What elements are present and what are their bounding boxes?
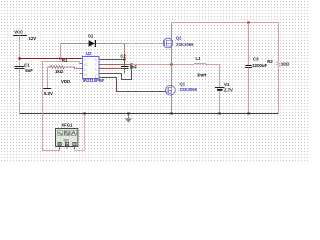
- wire C3 branch lower: [248, 68, 250, 114]
- svg-text:C3: C3: [253, 56, 259, 61]
- wire L1 right to V1: [206, 65, 220, 88]
- junction switch node: [170, 63, 172, 65]
- wire HO left part: [99, 64, 132, 66]
- junction V1 at rail: [218, 112, 220, 114]
- wire VCC vertical upper: [19, 36, 21, 67]
- svg-text:Q1: Q1: [180, 81, 186, 86]
- diode S1: [88, 34, 96, 47]
- wire gate Q2: [124, 43, 163, 45]
- wire VB pin: [99, 59, 125, 61]
- svg-text:5.0V: 5.0V: [44, 91, 53, 96]
- capacitor C2: [121, 64, 138, 69]
- svg-text:2200uF: 2200uF: [252, 63, 267, 68]
- svg-text:2SK3069: 2SK3069: [180, 87, 198, 92]
- svg-text:1kΩ: 1kΩ: [55, 69, 64, 74]
- wire C3 branch upper: [248, 23, 250, 66]
- wire Q2 drain: [171, 23, 173, 39]
- wire SD row to C2: [99, 68, 121, 70]
- svg-text:VCC: VCC: [14, 29, 23, 34]
- wire VDD supply to U2: [20, 58, 83, 60]
- resistor R2: [267, 59, 289, 67]
- junction XFG1 minus at rail: [83, 112, 85, 114]
- wire LO to Q1 gate: [99, 78, 167, 92]
- MOSFET Q2: [163, 36, 194, 48]
- capacitor C1: [15, 62, 34, 73]
- wire R1 to VDD symbol: [47, 67, 49, 89]
- wire C2 bottom stub: [124, 69, 126, 74]
- svg-text:2SK3069: 2SK3069: [176, 42, 194, 47]
- svg-text:U2: U2: [86, 51, 92, 56]
- svg-text:Q2: Q2: [176, 36, 182, 41]
- svg-text:C2: C2: [120, 53, 126, 58]
- wire V1 bottom: [219, 91, 221, 114]
- bottom rail wire: [20, 113, 279, 115]
- wire VS hook: [99, 65, 132, 80]
- wire XFG1 minus to rail: [75, 114, 85, 151]
- VCC power symbol: [13, 29, 36, 41]
- battery V1: [215, 82, 233, 93]
- wire HO to L1: [132, 64, 195, 66]
- svg-text:R2: R2: [267, 59, 273, 64]
- junction C3 at rail: [247, 112, 249, 114]
- junction Q1 at rail: [170, 112, 172, 114]
- resistor R1: [48, 58, 83, 74]
- junction S1 branch: [59, 57, 61, 59]
- svg-text:VDD: VDD: [61, 79, 70, 84]
- wire VCC vertical lower: [19, 69, 21, 114]
- svg-text:2.7V: 2.7V: [224, 88, 233, 93]
- svg-text:3mH: 3mH: [197, 73, 206, 78]
- svg-text:R1: R1: [62, 58, 68, 63]
- wire C2 top stub: [124, 60, 126, 67]
- wire S1 horizontal: [61, 43, 125, 45]
- svg-text:5nF: 5nF: [25, 68, 33, 73]
- svg-text:C1: C1: [24, 62, 30, 67]
- ground symbol: [125, 114, 132, 123]
- svg-text:606: 606: [64, 139, 70, 143]
- junction C3 top: [247, 21, 249, 23]
- svg-text:12V: 12V: [29, 36, 37, 41]
- svg-text:S1: S1: [88, 34, 94, 39]
- wire Q2 source to Q1 drain: [171, 48, 173, 86]
- svg-text:10Ω: 10Ω: [281, 62, 290, 67]
- wire R2 branch lower: [278, 67, 280, 114]
- wire S1 cathode down: [124, 44, 126, 60]
- wire Q1 source to rail: [171, 95, 173, 114]
- svg-text:V1: V1: [224, 82, 230, 87]
- top rail wire: [172, 22, 279, 24]
- capacitor C3: [245, 56, 267, 67]
- junction VB node: [123, 58, 125, 60]
- MOSFET Q1: [166, 81, 198, 95]
- function generator XFG1: [56, 123, 78, 150]
- junction VS/switch wire: [130, 63, 132, 65]
- VDD power symbol: [43, 79, 70, 96]
- IC U2 IR2110PBF: [80, 51, 105, 83]
- wire HIN from XFG1 plus: [43, 62, 83, 151]
- wire R2 branch upper: [278, 23, 280, 62]
- junction ground at rail: [127, 112, 129, 114]
- junction VCC/VDD: [18, 57, 20, 59]
- svg-text:L1: L1: [196, 56, 202, 61]
- wire S1 anode branch: [60, 44, 62, 59]
- svg-text:XFG1: XFG1: [61, 123, 73, 128]
- inductor L1: [194, 56, 206, 78]
- svg-text:IR2110PBF: IR2110PBF: [83, 78, 105, 83]
